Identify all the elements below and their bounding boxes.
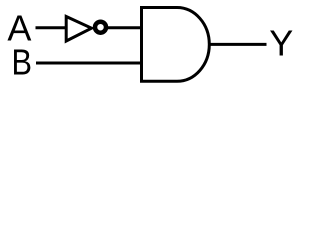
- output label Y: [269, 23, 293, 64]
- svg-text:Y: Y: [269, 23, 293, 64]
- inverter U1 bubble: [95, 22, 106, 33]
- wire B to AND gate: [36, 62, 142, 65]
- inverter U1 triangle: [66, 17, 91, 42]
- svg-text:B: B: [12, 42, 33, 83]
- output wire: [209, 43, 267, 46]
- wire inverter to AND gate: [107, 26, 142, 29]
- wire A to inverter: [36, 26, 67, 29]
- AND gate U2: [142, 8, 210, 82]
- input label A: [7, 8, 31, 49]
- input label B: [12, 42, 33, 83]
